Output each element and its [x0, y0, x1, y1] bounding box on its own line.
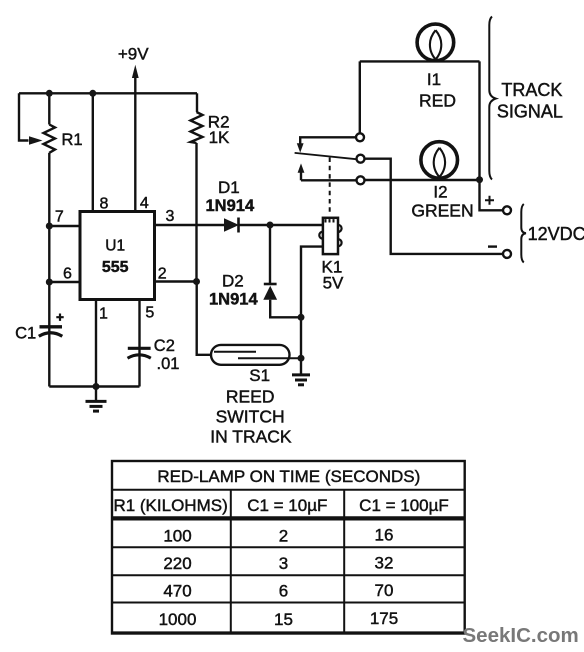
svg-text:5V: 5V: [323, 274, 344, 293]
svg-text:REED: REED: [226, 386, 275, 406]
svg-text:D1: D1: [218, 178, 240, 197]
svg-text:12VDC: 12VDC: [528, 224, 584, 244]
svg-text:6: 6: [63, 266, 72, 283]
svg-text:1N914: 1N914: [206, 197, 255, 215]
svg-text:470: 470: [163, 582, 191, 601]
svg-text:3: 3: [279, 554, 288, 573]
svg-text:555: 555: [102, 259, 129, 276]
svg-text:GREEN: GREEN: [411, 201, 473, 221]
svg-text:C1 = 100µF: C1 = 100µF: [359, 496, 449, 515]
svg-text:I2: I2: [433, 182, 447, 201]
svg-text:175: 175: [370, 609, 398, 628]
svg-text:C1: C1: [15, 324, 36, 342]
svg-text:100: 100: [163, 526, 191, 545]
svg-text:RED: RED: [419, 91, 456, 111]
svg-text:SWITCH: SWITCH: [216, 406, 285, 426]
svg-text:16: 16: [375, 526, 394, 545]
svg-text:I1: I1: [427, 70, 441, 89]
svg-text:1000: 1000: [159, 610, 197, 629]
svg-text:TRACK: TRACK: [501, 80, 562, 100]
svg-text:SeekIC.com: SeekIC.com: [463, 624, 579, 647]
svg-text:+9V: +9V: [118, 45, 149, 64]
svg-text:70: 70: [375, 581, 394, 600]
svg-text:.01: .01: [157, 355, 180, 373]
svg-text:6: 6: [279, 582, 288, 601]
svg-text:220: 220: [163, 554, 191, 573]
svg-text:7: 7: [55, 209, 64, 226]
svg-text:C2: C2: [154, 337, 175, 355]
svg-text:5: 5: [145, 305, 154, 322]
svg-text:3: 3: [165, 208, 174, 225]
svg-text:2: 2: [158, 266, 167, 283]
svg-text:D2: D2: [222, 272, 244, 291]
svg-text:RED-LAMP ON TIME (SECONDS): RED-LAMP ON TIME (SECONDS): [157, 467, 420, 486]
svg-text:U1: U1: [105, 238, 125, 255]
svg-text:R1: R1: [62, 131, 83, 149]
svg-text:SIGNAL: SIGNAL: [497, 102, 563, 122]
svg-text:32: 32: [375, 554, 394, 573]
svg-text:1: 1: [99, 305, 108, 322]
svg-text:15: 15: [274, 610, 293, 629]
svg-text:IN TRACK: IN TRACK: [210, 427, 292, 447]
svg-text:1N914: 1N914: [209, 291, 258, 309]
svg-text:4: 4: [140, 195, 149, 212]
svg-text:R1 (KILOHMS): R1 (KILOHMS): [113, 496, 227, 515]
svg-text:8: 8: [100, 195, 109, 212]
svg-text:1K: 1K: [209, 128, 230, 147]
svg-text:C1 = 10µF: C1 = 10µF: [247, 496, 327, 515]
svg-text:S1: S1: [249, 366, 270, 385]
svg-text:2: 2: [279, 526, 288, 545]
